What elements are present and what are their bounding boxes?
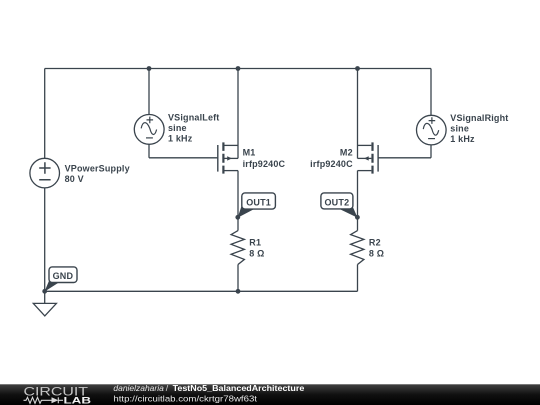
wire gate lead M1 (149, 157, 217, 159)
wire R2 to bottom rail (357, 265, 359, 292)
voltage source VSignalLeft (134, 114, 164, 144)
junction dot top rail / VSignalLeft (147, 66, 152, 71)
svg-text:OUT1: OUT1 (246, 197, 271, 207)
node flag GND (45, 267, 78, 292)
junction dot top rail / M1 (236, 66, 241, 71)
resistor R1 (231, 231, 244, 265)
wire VSignalRight top lead (430, 69, 432, 116)
svg-text:80 V: 80 V (65, 174, 84, 184)
wire M2 source to rail (357, 69, 359, 159)
svg-text:1 kHz: 1 kHz (168, 133, 193, 143)
wire top rail (45, 68, 431, 70)
svg-text:irfp9240C: irfp9240C (243, 159, 286, 169)
svg-text:LAB: LAB (64, 396, 92, 405)
svg-text:VSignalRight: VSignalRight (450, 113, 508, 123)
transistor M1 (218, 142, 238, 173)
wire left branch upper (44, 69, 46, 159)
node flag OUT1 (238, 193, 276, 218)
node OUT1 junction dot (235, 215, 240, 220)
svg-text:VPowerSupply: VPowerSupply (65, 164, 130, 174)
junction dot bottom rail / R1 (236, 289, 241, 294)
wire M2 gate lead (378, 157, 431, 159)
svg-text:1 kHz: 1 kHz (450, 134, 475, 144)
resistor R2 (351, 231, 364, 265)
svg-text:sine: sine (450, 123, 469, 133)
wire VSignalLeft top lead (148, 69, 150, 115)
wire left branch lower (44, 188, 46, 291)
svg-text:R1: R1 (249, 237, 261, 247)
node GND junction dot (42, 289, 47, 294)
wire VSignalRight bottom lead (430, 145, 432, 158)
transistor M2 (358, 142, 379, 173)
svg-text:danielzaharia: danielzaharia (113, 383, 164, 393)
svg-text:sine: sine (168, 123, 187, 133)
wire bottom rail (45, 290, 358, 292)
svg-text:http://circuitlab.com/ckrtgr78: http://circuitlab.com/ckrtgr78wf63t (113, 394, 257, 404)
node OUT2 junction dot (355, 215, 360, 220)
svg-text:VSignalLeft: VSignalLeft (168, 113, 219, 123)
wire ground stub (44, 291, 46, 303)
wire M1 source to rail (237, 69, 239, 159)
footer bar (0, 384, 540, 405)
wire VSignalLeft bottom lead (148, 144, 150, 158)
svg-text:M1: M1 (243, 148, 256, 158)
voltage source VSignalRight (417, 115, 447, 145)
svg-text:8 Ω: 8 Ω (369, 248, 384, 258)
svg-text:irfp9240C: irfp9240C (310, 159, 353, 169)
svg-text:M2: M2 (340, 148, 353, 158)
svg-text:R2: R2 (369, 237, 381, 247)
svg-text:OUT2: OUT2 (324, 197, 349, 207)
junction dot top rail / M2 (355, 66, 360, 71)
wire M1 drain to R1 (237, 171, 239, 231)
svg-text:8 Ω: 8 Ω (249, 248, 264, 258)
wire M2 drain to R2 (357, 171, 359, 231)
voltage source VPowerSupply (30, 158, 60, 188)
svg-text:TestNo5_BalancedArchitecture: TestNo5_BalancedArchitecture (173, 383, 305, 393)
wire R1 to bottom rail (237, 265, 239, 292)
node flag OUT2 (321, 193, 358, 218)
footer logo squiggle resistor-diode (24, 397, 64, 403)
svg-text:GND: GND (53, 271, 74, 281)
ground (33, 303, 56, 316)
